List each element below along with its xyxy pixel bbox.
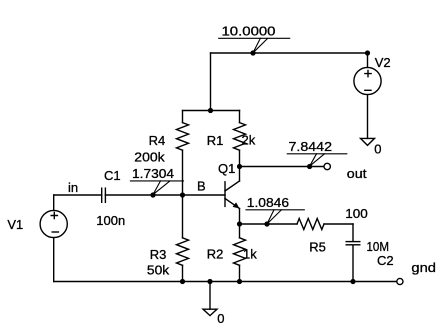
voltage source V1 [40,195,67,282]
ground (V2) [361,138,375,145]
resistor R1 [234,111,246,167]
resistor R5 [297,219,353,230]
resistor R3 [177,195,189,282]
terminal gnd [397,278,403,284]
capacitor C2 [346,224,360,282]
wire: crossbar to R4 and R1 [183,110,240,112]
svg-text:C2: C2 [377,253,394,268]
svg-text:R2: R2 [207,247,224,262]
annotation 7.8442 (out voltage probe) [287,139,347,166]
node: base probe dot [150,192,155,197]
svg-text:R5: R5 [309,240,326,255]
node: R2 bottom junction [237,279,242,284]
node: V2 top connection [365,50,370,55]
svg-text:Q1: Q1 [218,161,235,176]
svg-text:100: 100 [345,206,368,221]
wire: C1 to base node B [105,194,225,196]
wire: bottom ground rail [54,281,397,283]
svg-text:10.0000: 10.0000 [222,24,276,39]
svg-text:C1: C1 [104,168,121,183]
ground (bottom) [203,282,217,316]
svg-text:7.8442: 7.8442 [289,139,333,154]
annotation 1.0846 (emitter voltage probe) [246,195,304,224]
annotation 1.7304 (base voltage probe) [130,166,183,195]
svg-text:0: 0 [374,142,381,157]
node: R3 bottom junction [180,279,185,284]
node: C2 bottom junction [350,279,355,284]
wire: left drop from top rail [210,53,212,111]
svg-text:V2: V2 [375,55,391,70]
svg-text:R3: R3 [150,247,167,262]
node: collector junction [237,164,242,169]
svg-text:50k: 50k [147,263,170,278]
node: ground stub junction [207,279,212,284]
svg-text:1k: 1k [243,247,257,262]
wire: top supply rail [211,52,368,54]
svg-text:200k: 200k [134,149,165,164]
transistor Q1 [225,167,240,225]
svg-text:100n: 100n [96,213,125,228]
node: base junction B [180,192,185,197]
terminal out [324,163,330,169]
svg-text:2k: 2k [242,133,256,148]
resistor R2 [234,224,246,282]
svg-text:1.0846: 1.0846 [247,195,289,210]
resistor R4 [177,111,189,196]
node: probe dot on top rail [250,50,255,55]
svg-text:1.7304: 1.7304 [132,166,174,181]
svg-text:10M: 10M [367,239,390,254]
svg-text:R4: R4 [149,133,166,148]
annotation 10.0000 (supply voltage probe) [219,24,290,53]
wire: V1 to C1 [54,194,102,196]
svg-text:V1: V1 [7,217,23,232]
node: junction on R4/R1 crossbar [208,108,213,113]
svg-text:0: 0 [217,311,224,324]
voltage source V2 [354,53,381,138]
wire: emitter row to R5 [240,223,298,225]
svg-text:in: in [68,180,78,195]
node: out probe dot [307,164,312,169]
node: emitter probe dot [264,221,269,226]
wire: collector to out terminal [240,166,325,168]
svg-text:R1: R1 [207,133,224,148]
svg-text:gnd: gnd [411,260,436,275]
capacitor C1 [102,188,106,202]
svg-text:B: B [197,179,206,194]
node: emitter junction [237,221,242,226]
svg-text:out: out [347,166,367,181]
